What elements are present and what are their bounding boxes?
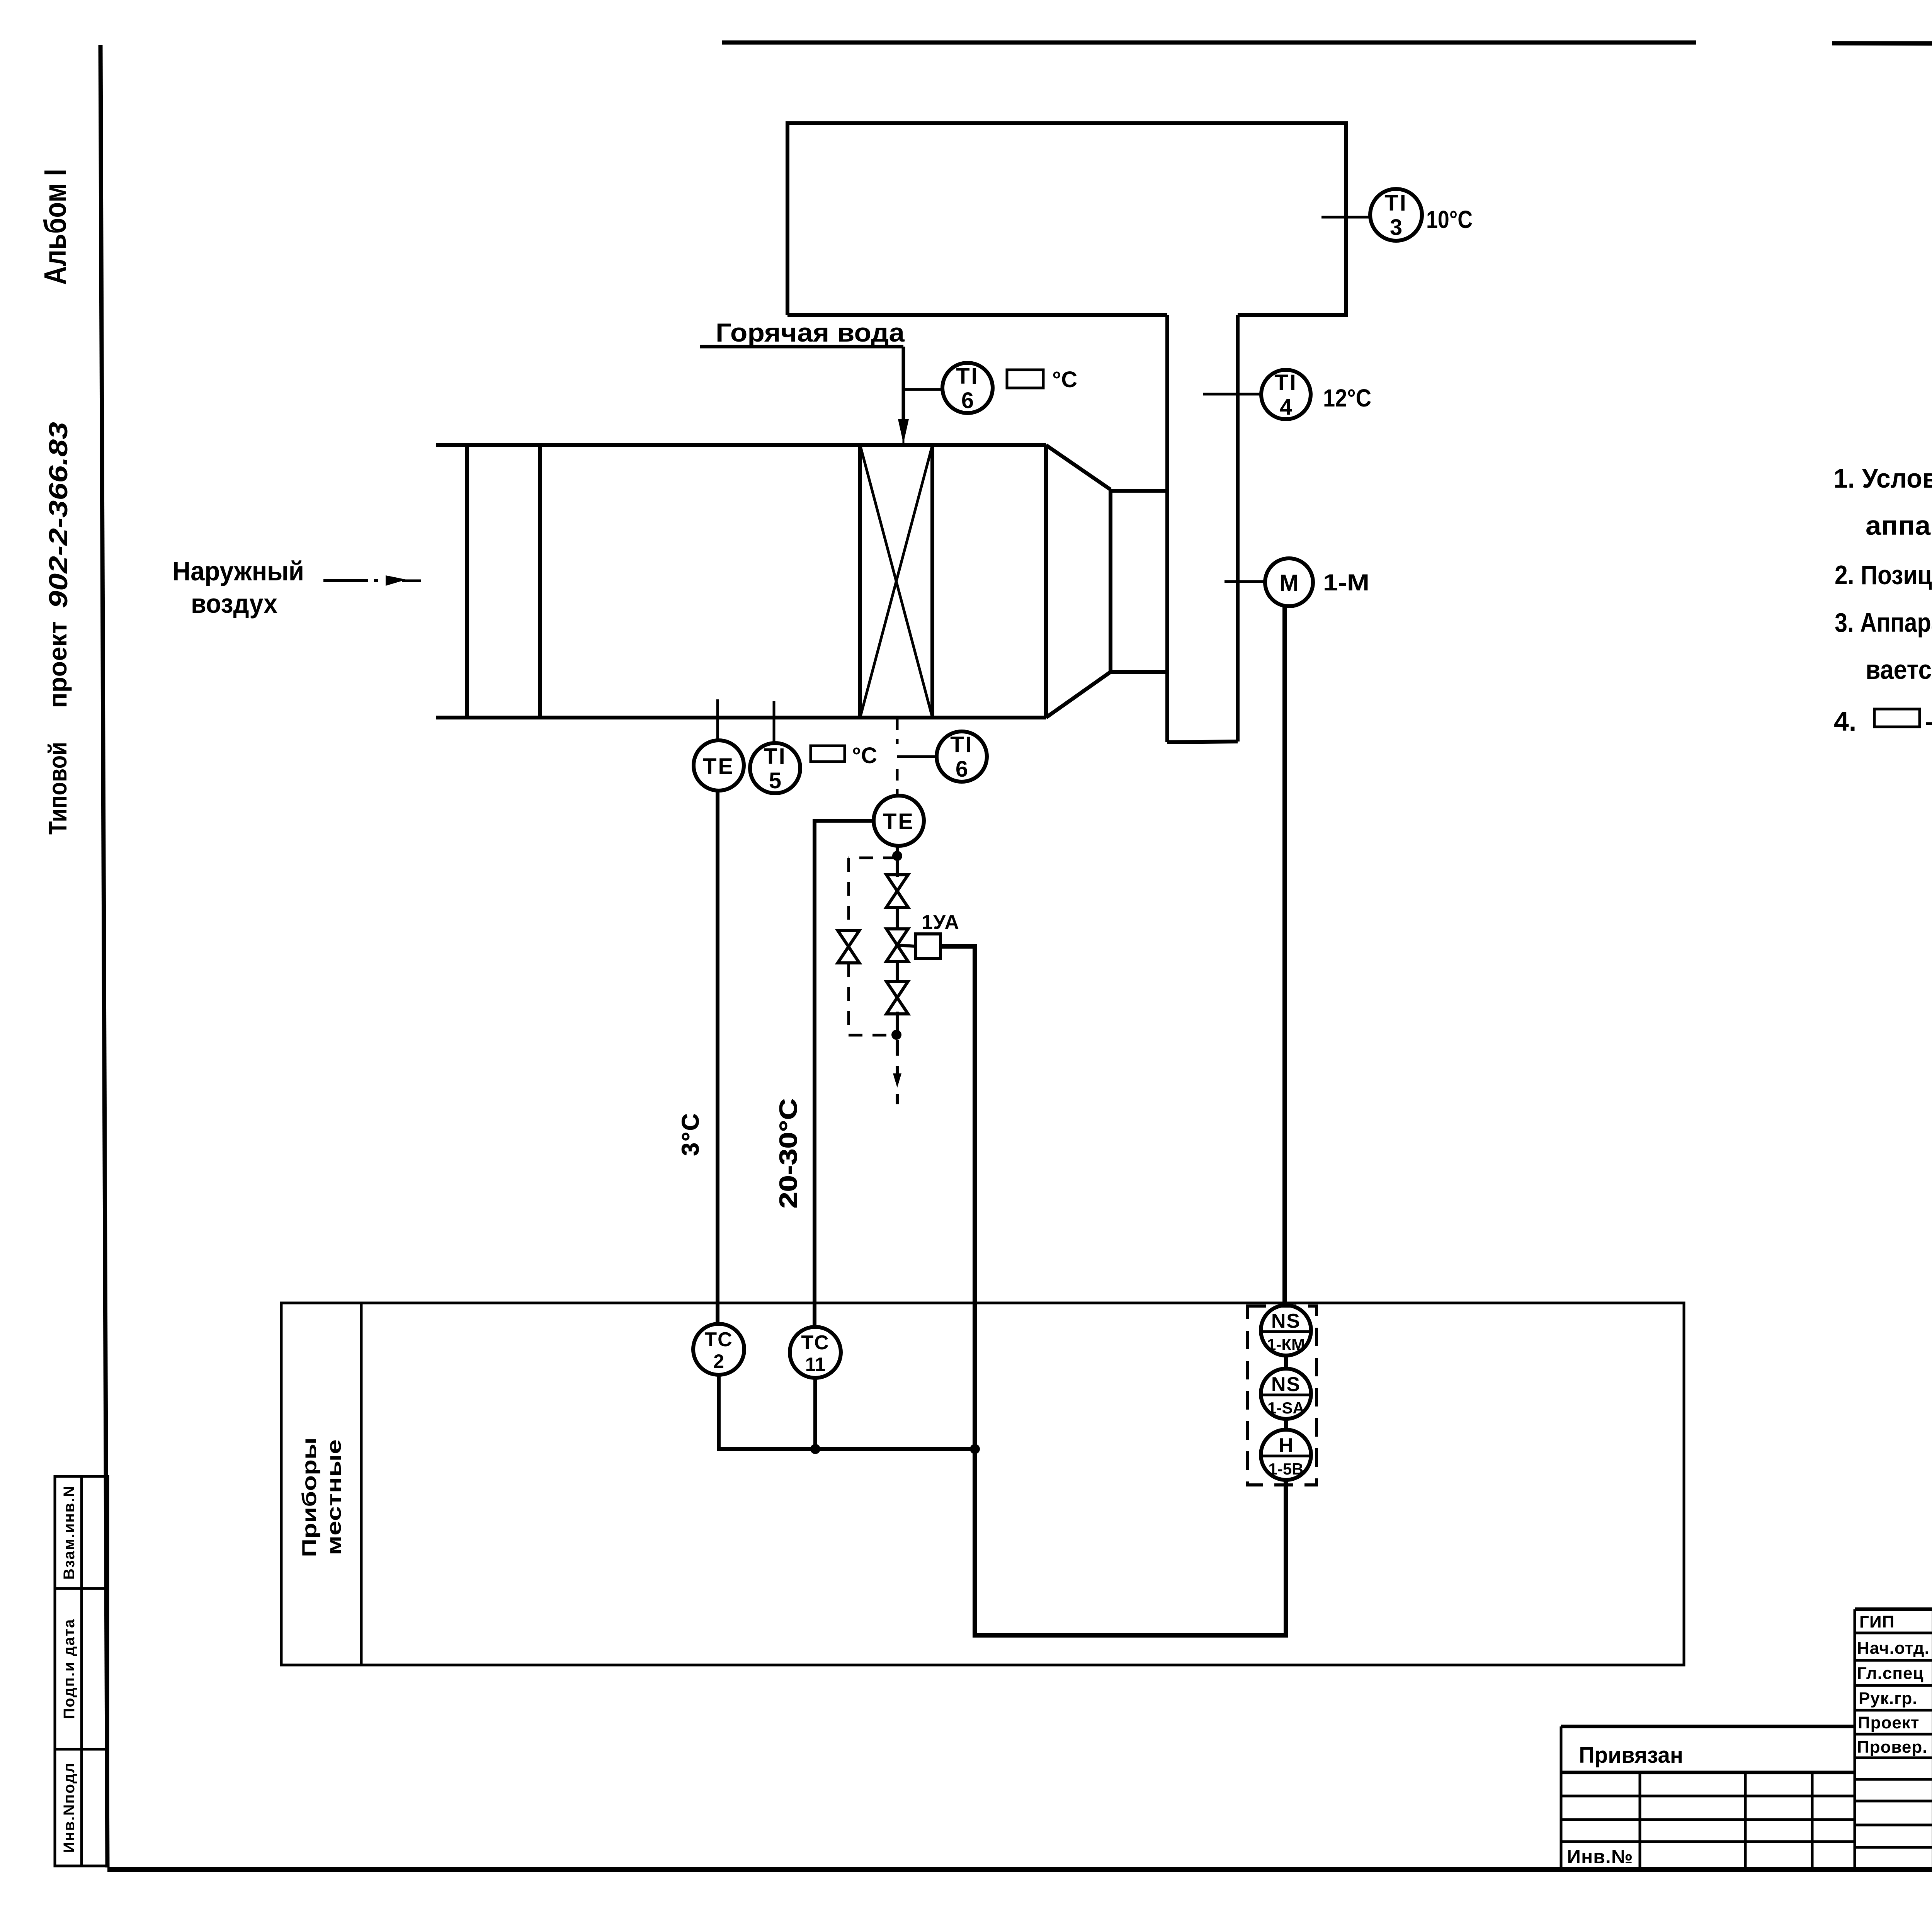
svg-text:TI: TI	[1384, 190, 1408, 216]
arrow into duct	[386, 575, 406, 586]
wire M to NS	[1282, 606, 1287, 1306]
fan cone top	[1046, 445, 1111, 490]
fill-in rectangle	[811, 746, 845, 762]
dashed electro group rectangle	[1248, 1306, 1316, 1485]
svg-text:Приборы: Приборы	[298, 1437, 321, 1557]
wire TE to valve	[896, 846, 899, 877]
instrument TI3	[1321, 189, 1473, 241]
RISER DUCT from fan to plenum	[1167, 315, 1238, 742]
svg-text:°С: °С	[852, 743, 877, 768]
instrument TE valve control	[874, 796, 924, 846]
svg-text:местные: местные	[323, 1439, 345, 1555]
wire NS1 to NS2	[1284, 1355, 1288, 1369]
node junction top	[892, 851, 902, 861]
svg-text:NS: NS	[1271, 1310, 1301, 1332]
svg-text:4: 4	[1280, 395, 1292, 420]
svg-text:1-М: 1-М	[1323, 570, 1369, 595]
actuator 1YA	[916, 934, 940, 959]
fan cone bottom	[1046, 672, 1111, 718]
duct bottom	[436, 716, 1046, 719]
instrument TE duct	[694, 699, 744, 791]
svg-text:вается в разделе электрообо: вается в разделе электрооборудования.	[1866, 655, 1932, 685]
svg-text:Горячая вода: Горячая вода	[716, 318, 905, 347]
wire bottom border	[107, 1867, 1932, 1872]
wire V3 to bottom junction	[896, 1012, 899, 1036]
VALVE ASSEMBLY	[838, 846, 959, 1104]
svg-text:TI: TI	[950, 732, 973, 757]
instrument TC2	[693, 1324, 744, 1375]
svg-text:2. Позиции приборов указаны: 2. Позиции приборов указаны в спецификац…	[1835, 560, 1932, 590]
instrument TC11	[790, 1327, 841, 1378]
wire V2-V3	[896, 961, 899, 981]
wire hot water horizontal	[700, 345, 903, 349]
stamp table grid	[1855, 1609, 1932, 1869]
damper wall 2	[538, 445, 542, 718]
wire hot water drop pipe	[902, 347, 905, 425]
svg-text:TE: TE	[883, 809, 915, 834]
svg-text:12°С: 12°С	[1323, 384, 1371, 412]
instrument H 1-5B	[1261, 1430, 1311, 1480]
wire riser bottom cap	[1167, 742, 1238, 742]
svg-text:Гл.спец: Гл.спец	[1857, 1664, 1924, 1683]
svg-text:Взам.инв.N: Взам.инв.N	[61, 1485, 78, 1580]
svg-text:Провер.: Провер.	[1857, 1738, 1927, 1757]
valve V3	[886, 981, 908, 1014]
svg-text:1-КМ: 1-КМ	[1267, 1335, 1305, 1354]
svg-text:NS: NS	[1271, 1373, 1301, 1396]
INSTRUMENT CIRCLES upper area	[694, 189, 1473, 846]
wire 1YA to box	[940, 946, 1286, 1635]
wire NS2 to H	[1284, 1419, 1288, 1430]
svg-text:6: 6	[961, 388, 974, 413]
wire drain dashed with arrow	[896, 1040, 899, 1063]
svg-text:аппаратуры даны по ОСТ 3627: аппаратуры даны по ОСТ 3627-77.	[1866, 510, 1932, 541]
fill-in rectangle	[1007, 370, 1043, 388]
arrow hot water into heater	[898, 419, 909, 444]
instrument TI6 hot water	[903, 363, 1077, 413]
svg-text:4.: 4.	[1834, 706, 1856, 736]
svg-text:1. Условные обозначения приб: 1. Условные обозначения приборов и элект…	[1833, 463, 1932, 493]
instrument NS 1-SA	[1261, 1369, 1311, 1419]
svg-text:3. Аппаратура, обведенная пун: 3. Аппаратура, обведенная пунктиром, пре…	[1835, 607, 1932, 638]
wire top border left segment	[722, 41, 1696, 45]
wire riser right wall	[1236, 315, 1240, 742]
svg-text:ТС: ТС	[704, 1328, 733, 1351]
svg-text:°С: °С	[1052, 367, 1077, 392]
heater X brace	[860, 445, 932, 718]
damper wall 1	[465, 445, 469, 718]
svg-text:проект: проект	[43, 621, 72, 708]
wire top border right segment	[1832, 43, 1932, 45]
dashed bypass rectangle	[849, 858, 897, 1035]
svg-text:TI: TI	[956, 364, 979, 389]
NOTES	[1833, 463, 1932, 736]
svg-text:Типовой: Типовой	[43, 742, 72, 835]
svg-text:11: 11	[805, 1354, 826, 1375]
LOCAL INSTRUMENTS BOX	[281, 1303, 1684, 1665]
svg-text:Проект: Проект	[1858, 1713, 1919, 1732]
fan outlet neck	[1109, 490, 1112, 672]
fan section right wall	[1044, 445, 1048, 718]
OUTSIDE AIR label	[172, 556, 421, 619]
svg-text:Рук.гр.: Рук.гр.	[1859, 1689, 1918, 1708]
wire left border	[100, 45, 107, 1867]
svg-text:TI: TI	[1274, 370, 1298, 395]
HOT WATER line	[700, 318, 909, 445]
AIR HANDLING UNIT duct	[436, 445, 1167, 718]
instrument M fan motor	[1225, 558, 1369, 606]
svg-text:М: М	[1279, 570, 1299, 596]
svg-text:3°С: 3°С	[677, 1112, 704, 1156]
svg-text:ГИП: ГИП	[1859, 1612, 1895, 1631]
svg-text:Инв.№: Инв.№	[1567, 1846, 1633, 1867]
valve bypass	[838, 930, 859, 963]
svg-text:10°С: 10°С	[1426, 206, 1473, 233]
wire TE2 to TC11	[815, 821, 874, 1327]
svg-text:2: 2	[713, 1350, 724, 1372]
svg-text:1-5В: 1-5В	[1268, 1460, 1303, 1478]
duct top	[436, 443, 1046, 447]
valve V1	[886, 875, 908, 907]
svg-text:ТС: ТС	[801, 1332, 829, 1354]
wire leader dash	[323, 579, 368, 582]
svg-text:3: 3	[1390, 215, 1402, 240]
PLENUM (room box top)	[787, 123, 1346, 315]
SIDE STAMP CELLS bottom-left	[55, 1476, 108, 1866]
svg-text:Альбом I: Альбом I	[38, 169, 72, 285]
valve V2 with actuator	[886, 911, 959, 961]
svg-text:Наружный: Наружный	[172, 556, 304, 586]
stamp table labels	[1857, 1612, 1932, 1757]
instrument TI4	[1203, 370, 1371, 420]
node TC11 junction	[810, 1444, 820, 1454]
instrument TI5	[750, 701, 877, 793]
wire riser left wall	[1165, 315, 1169, 742]
svg-text:902-2-366.83: 902-2-366.83	[44, 422, 73, 608]
svg-text:6: 6	[956, 757, 968, 782]
svg-text:Подп.и дата: Подп.и дата	[61, 1619, 78, 1719]
svg-text:Привязан: Привязан	[1579, 1743, 1683, 1768]
svg-text:Нач.отд.: Нач.отд.	[1857, 1639, 1930, 1658]
instrument TI6 after heater	[897, 731, 987, 782]
svg-text:–Заполняется при привязке.: –Заполняется при привязке.	[1925, 706, 1932, 736]
node 1YA wire junction	[970, 1444, 980, 1454]
CONTROL WIRES down to box	[677, 606, 1286, 1635]
svg-text:Н: Н	[1279, 1434, 1293, 1457]
svg-text:TE: TE	[703, 754, 735, 779]
TITLE BLOCK	[1561, 1609, 1932, 1872]
svg-text:5: 5	[769, 768, 781, 793]
privyazan box	[1561, 1726, 1855, 1869]
instrument NS 1-KM	[1261, 1305, 1311, 1355]
wire V1-V2	[896, 907, 899, 929]
heater left wall	[858, 445, 862, 718]
svg-text:20-30°С: 20-30°С	[774, 1099, 802, 1209]
svg-text:воздух: воздух	[191, 588, 277, 619]
fill-in rectangle note 4	[1874, 709, 1920, 727]
svg-text:Инв.Nподл: Инв.Nподл	[61, 1762, 78, 1853]
LEFT MARGIN VERTICAL TEXTS	[38, 169, 73, 835]
heater right wall	[930, 445, 934, 718]
wire dashed sensor line from heater	[896, 719, 899, 744]
svg-text:1-SA: 1-SA	[1267, 1399, 1304, 1417]
svg-text:TI: TI	[764, 744, 787, 769]
wire TC2 down and across	[719, 1375, 975, 1449]
wire TE1 to TC2	[716, 791, 719, 1324]
node junction bottom	[891, 1030, 901, 1040]
wire TC11 down	[813, 1378, 817, 1449]
svg-text:1УА: 1УА	[922, 911, 959, 934]
